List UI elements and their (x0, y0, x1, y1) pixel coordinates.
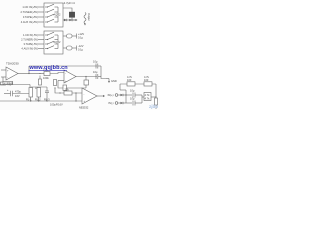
switch S2c (45, 41, 58, 44)
op-amp U2 (64, 70, 76, 83)
svg-text:Output: Output (87, 13, 91, 21)
svg-text:AQY2: AQY2 (54, 40, 61, 44)
capacitor C10 (130, 97, 135, 106)
op-amp U1 (6, 67, 18, 80)
wire (123, 94, 132, 96)
resistor R12 (144, 93, 151, 101)
wire top bus (29, 65, 97, 67)
resistor R13 (155, 98, 158, 105)
svg-text:-: - (65, 73, 66, 76)
wire mid drop (55, 88, 82, 93)
wire join (101, 66, 106, 79)
svg-text:10μ: 10μ (130, 89, 135, 93)
diode D4 (121, 102, 124, 104)
wire (72, 47, 77, 49)
feedback stub (1, 77, 3, 83)
label L1 (3, 81, 13, 84)
jack J2 (115, 94, 118, 97)
jack J3 (115, 102, 118, 105)
wire (142, 96, 144, 98)
wire (98, 65, 101, 67)
switch S2a (45, 32, 58, 35)
wire (155, 105, 157, 109)
svg-text:IN(+): IN(+) (108, 93, 114, 97)
relay box K1 (44, 3, 63, 27)
arrowhead down (84, 24, 86, 26)
svg-text:103: 103 (127, 78, 132, 82)
op-amp U3 (82, 88, 97, 104)
svg-text:1.CD IN(-5V): 1.CD IN(-5V) (23, 33, 38, 37)
wire L row (0, 84, 30, 86)
wire (118, 94, 121, 96)
resistor R7 (127, 82, 135, 86)
resistor R9 (29, 88, 33, 98)
resistor R14 (35, 73, 42, 90)
diode D1 (64, 19, 67, 22)
node N3 (85, 76, 86, 77)
svg-text:0.1μ: 0.1μ (78, 47, 84, 51)
switch S2d (45, 46, 58, 49)
node (54, 87, 55, 88)
switch S2b (45, 37, 58, 40)
bus inside K1 (57, 7, 59, 22)
svg-text:10μ: 10μ (93, 60, 98, 64)
input wire 7 (38, 43, 44, 45)
capacitor C7 (4, 89, 29, 98)
wire bend (119, 84, 121, 90)
capacitor C5 (93, 60, 98, 69)
svg-text:2.TUNER(+5V): 2.TUNER(+5V) (20, 10, 38, 14)
svg-text:TDA2030: TDA2030 (6, 62, 19, 66)
input wire 8 (38, 48, 44, 50)
wire (50, 73, 64, 74)
svg-text:zjbb: zjbb (149, 104, 158, 109)
svg-text:16V: 16V (15, 94, 20, 98)
svg-text:4.7μF×4: 4.7μF×4 (64, 1, 75, 5)
resistor R5 (84, 80, 89, 85)
wire bend (29, 85, 31, 88)
wire diode row (63, 19, 77, 21)
switch S1a (45, 4, 58, 7)
bus inside K2 (57, 35, 59, 49)
coil L2 (67, 46, 73, 50)
relay box K2 (44, 31, 63, 54)
switch S1b (45, 9, 58, 12)
resistor R3 (44, 72, 50, 76)
svg-text:0.1μ: 0.1μ (78, 35, 84, 39)
wire U1 in+ (1, 69, 6, 71)
resistor Rf (1, 82, 6, 85)
svg-text:470μ: 470μ (15, 89, 21, 93)
resistor R11 (64, 91, 72, 95)
svg-text:100k: 100k (43, 76, 49, 80)
input wire 1 (38, 6, 44, 8)
wire (151, 96, 156, 98)
node (125, 94, 126, 95)
node (38, 100, 39, 101)
wire (72, 35, 77, 37)
wire to R3 (29, 73, 44, 75)
node (155, 96, 156, 97)
svg-text:4.7k: 4.7k (145, 97, 151, 101)
pin bar (76, 34, 78, 39)
node J1 (71, 19, 72, 20)
wire (98, 76, 101, 78)
wire (135, 94, 142, 96)
svg-text:-: - (84, 93, 85, 96)
wire down right (155, 84, 157, 97)
svg-text:10μ: 10μ (93, 70, 98, 74)
diode D3 (121, 94, 124, 96)
cable squiggle (84, 13, 86, 24)
wire vert (125, 90, 127, 103)
coil L1 (67, 34, 73, 38)
svg-text:4.7k: 4.7k (145, 93, 151, 97)
node (75, 92, 76, 93)
diode D2 (69, 19, 72, 22)
wire (118, 102, 121, 104)
svg-text:GND: GND (111, 79, 117, 83)
svg-text:1.CD IN(+5V): 1.CD IN(+5V) (22, 5, 38, 9)
wire K1 out top (63, 8, 72, 12)
svg-text:10μ: 10μ (130, 97, 135, 101)
wire vert join (141, 95, 143, 103)
svg-text:AQY2: AQY2 (54, 13, 61, 17)
node (30, 100, 31, 101)
resistor R10 (37, 88, 41, 98)
svg-text:IN(-): IN(-) (108, 101, 113, 105)
wire K2 out B (63, 47, 67, 49)
input wire 6 (38, 39, 44, 41)
input wire 3 (38, 16, 44, 18)
svg-text:4.AUX IN(-5V): 4.AUX IN(-5V) (21, 47, 38, 51)
wire bottom bus (0, 100, 82, 102)
wire right bus (120, 83, 156, 85)
wire (120, 89, 126, 91)
switch S1c (45, 14, 58, 17)
wire U2 in+ (58, 80, 64, 82)
capacitor C9 (130, 89, 135, 98)
crystal box X1 (69, 12, 74, 17)
resistor R4 (54, 80, 57, 86)
svg-text:22k: 22k (65, 88, 70, 92)
svg-text:2.TUNER(-5V): 2.TUNER(-5V) (21, 38, 38, 42)
svg-text:-: - (7, 77, 8, 80)
arrow to connector (73, 19, 78, 21)
svg-text:4.AUX IN(+5V): 4.AUX IN(+5V) (21, 20, 38, 24)
wire (85, 85, 87, 88)
node (59, 92, 60, 93)
wire up (28, 66, 30, 74)
input wire 4 (38, 21, 44, 23)
wire U3 out (97, 95, 105, 97)
input wire 5 (38, 34, 44, 36)
wire (123, 102, 132, 104)
svg-text:NE5532: NE5532 (79, 106, 89, 110)
wire (71, 17, 73, 20)
node N1 (28, 73, 29, 74)
arrow out (106, 79, 110, 84)
watermark (29, 65, 69, 71)
wire U1 out (18, 73, 29, 75)
wire (38, 97, 40, 101)
svg-text:103: 103 (144, 78, 149, 82)
wire (135, 102, 142, 104)
pin bar (76, 46, 78, 51)
svg-text:100μF/16V: 100μF/16V (50, 103, 63, 107)
wire down to R5 (85, 77, 87, 81)
capacitor C6 (93, 70, 98, 79)
svg-text:3.TAPE(+5V): 3.TAPE(+5V) (23, 15, 38, 19)
svg-text:3.TAPE(-5V): 3.TAPE(-5V) (23, 42, 38, 46)
wire U1 in- (1, 76, 6, 78)
node N2 (57, 65, 58, 66)
switch S1d (45, 19, 58, 22)
wire feedback down (58, 81, 86, 89)
wire (30, 97, 32, 101)
svg-text:www.qqjbb.cn: www.qqjbb.cn (29, 65, 69, 71)
wire K2 out A (63, 35, 67, 37)
input wire 2 (38, 11, 44, 13)
wire U2 out (76, 76, 97, 78)
resistor R8 (144, 82, 152, 86)
